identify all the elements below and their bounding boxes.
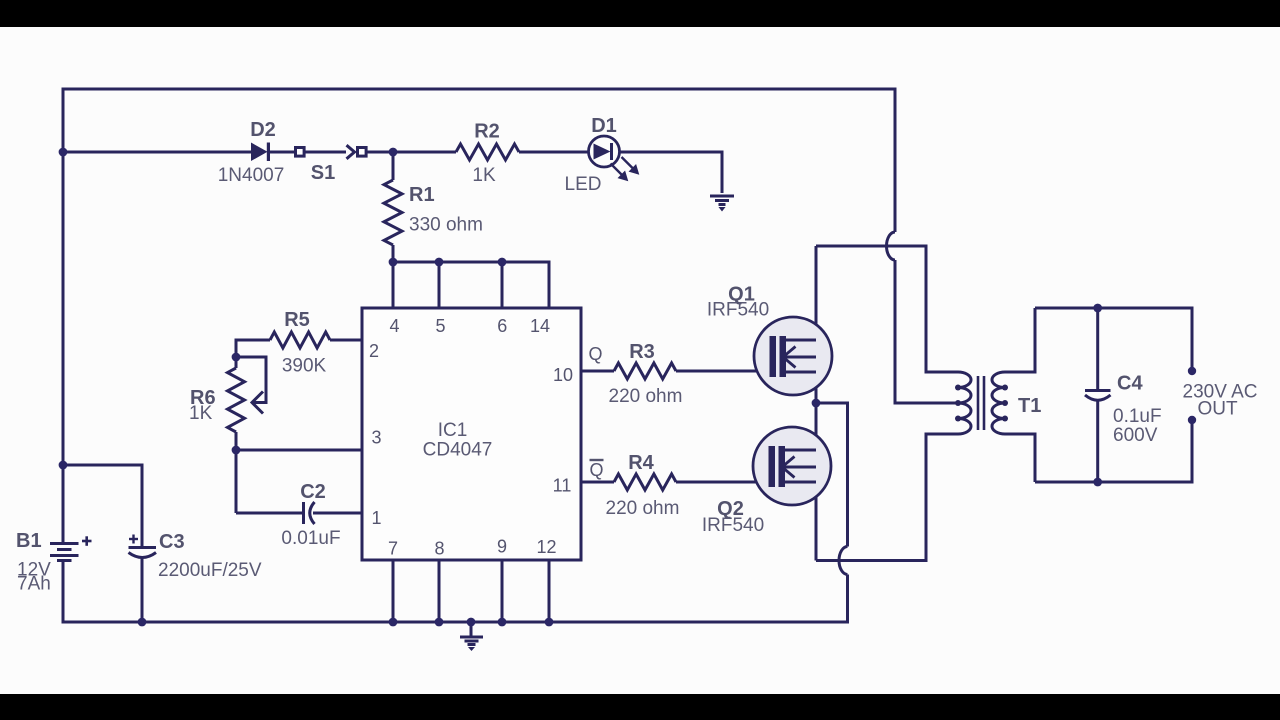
svg-text:8: 8	[434, 539, 444, 559]
wire hop over Q2 source run	[839, 547, 848, 575]
node output terminal bottom	[1188, 416, 1196, 424]
svg-text:11: 11	[553, 476, 572, 496]
node row2/left rail	[59, 148, 68, 157]
svg-text:CD4047: CD4047	[423, 440, 493, 461]
ground (bottom rail)	[460, 637, 483, 645]
node C4 top	[1093, 304, 1102, 313]
LED D1	[589, 136, 638, 180]
battery B1	[50, 536, 92, 560]
wire R2 to LED	[519, 151, 589, 154]
svg-text:10: 10	[553, 365, 573, 385]
svg-text:Q: Q	[588, 344, 602, 364]
svg-text:R3: R3	[629, 341, 655, 363]
wire supply bus above IC	[393, 261, 549, 264]
capacitor C4 flat plate	[1085, 389, 1111, 392]
resistor R6 zigzag (pot)	[228, 368, 245, 432]
svg-text:R4: R4	[628, 452, 654, 474]
wire secondary bottom lead riser	[1005, 434, 1035, 482]
wire LED to ground corner	[620, 152, 723, 193]
svg-text:220 ohm: 220 ohm	[609, 386, 683, 407]
node bus pin5	[435, 258, 444, 267]
wire pin7 stub	[392, 560, 395, 622]
svg-text:R2: R2	[474, 121, 500, 143]
wire hop over drain wire	[887, 232, 896, 260]
wire R5 left end down to R6	[236, 340, 238, 368]
svg-text:IC1: IC1	[438, 420, 468, 441]
wire battery branch to C3	[63, 465, 142, 546]
svg-text:1N4007: 1N4007	[218, 165, 285, 186]
wire C4 bottom lead	[1096, 399, 1099, 482]
svg-text:3: 3	[371, 428, 381, 448]
wire row2: left rail to D2	[63, 151, 251, 154]
wire D2 to S1	[270, 151, 295, 154]
transformer T1 secondary winding	[992, 372, 1005, 434]
wire Q1 drain riser	[815, 246, 818, 340]
wire pin10 lead	[581, 370, 614, 373]
transformer T1 core	[977, 376, 980, 430]
svg-text:B1: B1	[16, 530, 42, 552]
capacitor C2 flat plate	[302, 502, 305, 524]
wire R6 bottom to pin1 corner	[235, 432, 238, 513]
wire battery plus feed down from top rail with hop	[894, 88, 897, 233]
node ground rail	[467, 618, 476, 627]
node pin8 rail	[435, 618, 444, 627]
svg-text:390K: 390K	[282, 356, 327, 377]
wire pin6 stub	[501, 262, 504, 308]
wire R6 wiper	[236, 357, 266, 403]
wire bottom rail	[62, 621, 848, 624]
resistor R5 zigzag	[270, 332, 330, 348]
svg-text:C3: C3	[159, 531, 185, 553]
switch S1	[296, 145, 367, 159]
wire S1 terminal to pole	[305, 151, 347, 154]
wire ground stub below rail	[470, 622, 473, 636]
wire R3 to Q1 gate	[676, 370, 770, 373]
svg-text:14: 14	[530, 316, 550, 336]
node C4 bottom	[1093, 478, 1102, 487]
wire secondary top lead riser	[1005, 308, 1035, 372]
wire R1 top lead	[392, 152, 395, 180]
resistor R3 zigzag	[614, 363, 676, 379]
wire battery plus feed to center tap	[895, 260, 958, 403]
wire pin9 stub	[501, 560, 504, 622]
node pin12 rail	[545, 618, 554, 627]
capacitor C2 curved plate	[310, 502, 315, 524]
wire pin11 lead	[581, 481, 614, 484]
ground (LED)	[710, 196, 734, 205]
wire R4 to Q2 gate	[676, 481, 769, 484]
svg-text:7Ah: 7Ah	[17, 574, 51, 595]
svg-text:6: 6	[497, 316, 507, 336]
resistor R2 zigzag	[456, 144, 519, 160]
wire left vertical rail (battery negative/positive loop)	[62, 91, 65, 544]
wire pin12 stub	[548, 560, 551, 622]
node R6 top wiper	[232, 353, 241, 362]
wire pin2 lead left	[236, 339, 270, 342]
resistor R1 zigzag	[384, 180, 402, 245]
svg-text:C4: C4	[1117, 373, 1143, 395]
wire C3 bottom lead	[141, 558, 144, 623]
svg-text:D2: D2	[250, 119, 276, 141]
svg-text:IRF540: IRF540	[707, 300, 769, 321]
node R6 bottom pin3	[232, 446, 241, 455]
wire pin1 lead left of C2	[236, 512, 302, 515]
wire C4 top lead	[1096, 308, 1099, 390]
node output terminal top	[1188, 367, 1196, 375]
svg-text:R1: R1	[409, 184, 435, 206]
wire Q2 source run to primary bottom vertical	[816, 434, 958, 561]
wire pin14 stub	[548, 261, 551, 309]
node pin7 rail	[389, 618, 398, 627]
node bus pin6	[498, 258, 507, 267]
svg-text:7: 7	[388, 539, 398, 559]
node Q1 source / Q2 drain	[812, 399, 821, 408]
svg-text:220 ohm: 220 ohm	[606, 498, 680, 519]
node C3 bottom	[138, 618, 147, 627]
svg-text:330 ohm: 330 ohm	[409, 215, 483, 236]
transformer winding cusps	[955, 385, 1008, 422]
wire S1 to R2 through node	[367, 151, 457, 154]
node battery branch	[59, 461, 68, 470]
wire down to bottom rail	[846, 575, 849, 624]
transistor Q1 IRF540	[754, 317, 832, 395]
svg-text:C2: C2	[300, 481, 326, 503]
svg-text:LED: LED	[565, 174, 602, 195]
capacitor C3	[129, 535, 157, 558]
wire pin3 lead	[236, 449, 362, 452]
wire pin1 lead right of C2	[313, 512, 362, 515]
svg-text:1K: 1K	[189, 403, 213, 424]
node bus pin4	[389, 258, 398, 267]
Qbar overline	[590, 459, 604, 461]
wire node to bottom rail upper part	[816, 403, 848, 547]
capacitor C4 curved plate	[1085, 395, 1111, 400]
svg-text:IRF540: IRF540	[702, 515, 764, 536]
wire Q1 source to Q2 drain vertical	[815, 357, 818, 450]
wire pin4 stub	[392, 262, 395, 308]
svg-text:1K: 1K	[472, 165, 496, 186]
svg-text:0.1uF: 0.1uF	[1113, 406, 1162, 427]
wire drain top run to transformer primary top	[816, 246, 958, 372]
svg-text:5: 5	[435, 316, 445, 336]
wire pin8 stub	[438, 560, 441, 622]
svg-text:T1: T1	[1018, 395, 1041, 417]
wire Q2 source drop	[815, 467, 818, 561]
svg-text:OUT: OUT	[1197, 399, 1238, 420]
resistor R4 zigzag	[614, 474, 676, 490]
svg-text:9: 9	[497, 537, 507, 557]
svg-text:1: 1	[371, 508, 381, 528]
wire R1 bottom lead	[392, 245, 395, 262]
wire output bottom rail	[1035, 481, 1192, 484]
svg-text:600V: 600V	[1113, 425, 1158, 446]
IC U1 CD4047 box	[362, 308, 581, 560]
wire top horizontal rail	[62, 88, 896, 91]
diode D2	[251, 143, 270, 162]
wire pin5 stub	[438, 262, 441, 308]
wire output top rail	[1035, 307, 1192, 310]
svg-text:S1: S1	[311, 162, 335, 184]
wire output terminal lower	[1191, 420, 1194, 484]
svg-text:0.01uF: 0.01uF	[281, 528, 340, 549]
transistor Q2 IRF540	[753, 427, 831, 505]
svg-text:D1: D1	[591, 115, 617, 137]
svg-text:2200uF/25V: 2200uF/25V	[158, 560, 262, 581]
svg-text:4: 4	[389, 316, 399, 336]
node R1/S1/R2	[389, 148, 398, 157]
R6 wiper arrowhead	[252, 392, 263, 414]
wire output terminal upper	[1191, 307, 1194, 372]
wire left rail below battery	[62, 561, 65, 622]
svg-text:R5: R5	[284, 309, 310, 331]
svg-text:12: 12	[536, 537, 556, 557]
svg-text:Q: Q	[589, 460, 603, 480]
node pin9 rail	[498, 618, 507, 627]
svg-text:2: 2	[369, 341, 379, 361]
wire R5 to pin2	[330, 339, 362, 342]
transformer T1 primary winding	[958, 372, 971, 434]
